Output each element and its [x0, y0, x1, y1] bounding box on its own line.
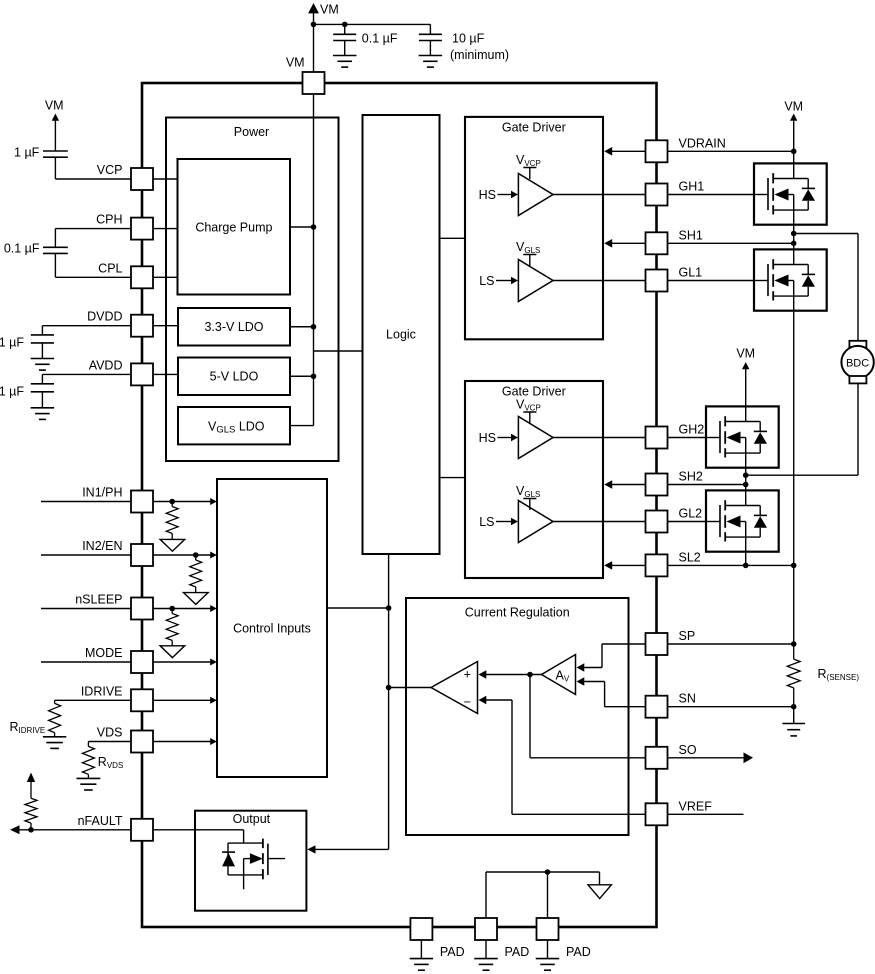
wire GL1 from LS buffer to FET2 gate [553, 280, 754, 282]
svg-text:SO: SO [679, 743, 697, 757]
wire Logic down-bus [388, 554, 390, 849]
wire GH1 from HS buffer to FET1 gate [553, 194, 754, 196]
svg-text:(minimum): (minimum) [450, 48, 509, 62]
wire SH2 (arrow into Gate Driver 2) [604, 480, 612, 489]
transistor Q1 (high-side 1) (external MOSFET with body diode) [754, 163, 827, 225]
wire Control Inputs to logic bus [327, 607, 389, 609]
wire AVDD external [42, 373, 131, 375]
wire Logic to Gate Driver 2 [440, 477, 466, 479]
svg-text:nSLEEP: nSLEEP [75, 593, 122, 607]
op-amp HS gate drive buffer [518, 417, 553, 459]
wire pad bus [486, 871, 600, 873]
nFAULT pull-up arrow [27, 773, 35, 783]
svg-text:AVDD: AVDD [89, 358, 123, 372]
pin SL2 [646, 554, 668, 576]
svg-text:SH1: SH1 [679, 228, 703, 242]
pin SH1 [646, 232, 668, 254]
svg-text:GH1: GH1 [679, 180, 705, 194]
wire SO external with arrow [668, 757, 745, 759]
wire MODE to Control Inputs [153, 661, 211, 663]
Gate Driver 1 box [465, 117, 603, 339]
wire AV output to comparator plus input [485, 674, 542, 676]
pin VM (top) [303, 72, 325, 94]
capacitor 1 uF (AVDD) [31, 383, 54, 385]
Control Inputs box [217, 479, 327, 777]
wire to bulk caps [314, 23, 431, 25]
wire VGLS LDO to VM rail [290, 425, 314, 427]
pin VDS [131, 731, 153, 753]
op-amp LS gate drive buffer [518, 501, 553, 543]
svg-text:VDS: VDS [97, 726, 123, 740]
svg-text:VM: VM [45, 99, 64, 113]
svg-text:GL1: GL1 [679, 266, 703, 280]
internal pulldown symbol [160, 539, 185, 551]
wire CPH loop [55, 228, 131, 230]
pin CPL [131, 266, 153, 288]
wire SH1 (arrow into Gate Driver 1) [604, 239, 612, 248]
pin PAD [537, 918, 559, 940]
svg-text:SP: SP [679, 629, 696, 643]
junction [342, 22, 348, 28]
resistor RIDRIVE [54, 700, 56, 703]
svg-text:VM: VM [320, 3, 339, 17]
pin GH2 [646, 427, 668, 449]
wire FET2 source down to sense node [793, 311, 795, 644]
svg-text:Gate Driver: Gate Driver [502, 121, 566, 135]
transistor Q4 (low-side 2) (external MOSFET with body diode) [706, 490, 779, 552]
svg-text:R(SENSE): R(SENSE) [818, 667, 860, 682]
digital ground stub [599, 872, 601, 885]
wire IN1/PH external [41, 501, 131, 503]
Logic box [363, 115, 440, 554]
wire SP input to AV [602, 643, 657, 645]
svg-text:DVDD: DVDD [87, 310, 122, 324]
svg-text:5-V LDO: 5-V LDO [210, 370, 259, 384]
svg-text:CPL: CPL [98, 261, 122, 275]
transistor nFAULT open-drain FET (Output block) [222, 839, 285, 890]
svg-text:1 µF: 1 µF [0, 385, 24, 399]
motor BDC [841, 341, 873, 384]
pin IN2/EN [131, 544, 153, 566]
wire sense node to ground [793, 707, 795, 724]
wire 3.3-V LDO to VM rail [290, 326, 314, 328]
wire SH1 to BDC motor [794, 233, 858, 235]
wire SN to sense node [668, 706, 794, 708]
svg-text:AV: AV [556, 668, 570, 683]
wire to VCP pin [55, 178, 131, 180]
wire nSLEEP to Control Inputs [153, 608, 211, 610]
wire DVDD external [42, 325, 131, 327]
svg-text:IN1/PH: IN1/PH [82, 486, 122, 500]
svg-text:MODE: MODE [85, 646, 123, 660]
pin DVDD [131, 315, 153, 337]
wire IN2/EN to Control Inputs [153, 554, 211, 556]
svg-text:Charge Pump: Charge Pump [195, 221, 272, 235]
device outer boundary box [142, 83, 657, 927]
svg-text:PAD: PAD [505, 945, 530, 959]
svg-text:GH2: GH2 [679, 423, 705, 437]
junction [169, 499, 175, 505]
pin VCP [131, 168, 153, 190]
ground [77, 777, 101, 779]
svg-text:0.1 µF: 0.1 µF [4, 242, 40, 256]
junction [169, 606, 175, 612]
wire nSLEEP external [41, 608, 131, 610]
wire PAD2 riser [485, 872, 487, 918]
svg-text:VVCP: VVCP [516, 398, 541, 413]
svg-text:VDRAIN: VDRAIN [679, 136, 726, 150]
wire FET4 source to SL2 [745, 552, 747, 566]
wire PAD3 riser [547, 872, 549, 918]
wire VCP to Charge Pump [153, 178, 178, 180]
svg-text:Power: Power [234, 125, 269, 139]
wire nFAULT external with arrow [10, 825, 20, 834]
pin SO [646, 747, 668, 769]
resistor IN2 pulldown [195, 555, 197, 560]
svg-text:VVCP: VVCP [516, 153, 541, 168]
ground [31, 407, 55, 409]
svg-text:nFAULT: nFAULT [78, 814, 123, 828]
wire SH2 node [745, 468, 747, 491]
svg-text:Control Inputs: Control Inputs [233, 621, 311, 635]
capacitor 10 uF (minimum) [429, 24, 431, 34]
wire AV out tap down to SO [529, 675, 531, 758]
wire CPH to Charge Pump [153, 228, 178, 230]
ground [31, 358, 55, 360]
internal pulldown symbol [184, 593, 209, 605]
svg-text:VM: VM [736, 346, 755, 360]
wire VM pin down into Power block [313, 94, 315, 426]
wire BDC to SH2 node [857, 383, 859, 475]
capacitor 0.1 uF (CPH-CPL) [43, 246, 68, 248]
svg-text:VGLS: VGLS [516, 240, 540, 255]
ground [547, 940, 549, 959]
pin AVDD [131, 363, 153, 385]
wire IN2/EN external [41, 554, 131, 556]
svg-text:0.1 µF: 0.1 µF [362, 32, 398, 46]
Charge Pump box [178, 159, 291, 295]
svg-text:IN2/EN: IN2/EN [82, 539, 122, 553]
transistor Q2 (low-side 1) (external MOSFET with body diode) [754, 249, 827, 311]
wire VDS external [88, 741, 131, 743]
wire SN input to AV [604, 682, 606, 707]
ground [782, 723, 805, 725]
pin SP [646, 633, 668, 655]
wire GL2 from LS buffer to FET4 gate [553, 521, 706, 523]
pin PAD [410, 918, 432, 940]
wire VDS to Control Inputs [153, 741, 211, 743]
junction VDRAIN/VM [791, 149, 797, 155]
svg-text:Current Regulation: Current Regulation [465, 606, 570, 620]
wire SP to sense node [668, 643, 794, 645]
svg-text:VM: VM [286, 56, 305, 70]
resistor nFAULT pull-up [30, 781, 32, 798]
resistor IN1 pulldown [171, 502, 173, 507]
pin SH2 [646, 474, 668, 496]
wire 5-V LDO to VM rail [290, 375, 314, 377]
svg-text:LS: LS [479, 515, 494, 529]
svg-text:SH2: SH2 [679, 470, 703, 484]
svg-text:HS: HS [479, 188, 496, 202]
svg-text:Gate Driver: Gate Driver [502, 385, 566, 399]
wire VDRAIN (arrow into Gate Driver 1) [604, 147, 612, 156]
wire VREF to comparator minus input [485, 699, 512, 701]
svg-text:VM: VM [784, 99, 803, 113]
wire Power to Logic [314, 350, 363, 352]
VGLS LDO box [178, 407, 290, 444]
wire Charge Pump to VM rail [290, 226, 314, 228]
pin PAD [475, 918, 497, 940]
op-amp AV sense amplifier [542, 655, 576, 695]
svg-text:+: + [464, 668, 471, 682]
junction [193, 552, 199, 558]
svg-text:IDRIVE: IDRIVE [81, 684, 123, 698]
capacitor 1 uF (DVDD) [31, 334, 54, 336]
wire SH1 node [793, 225, 795, 250]
pin nSLEEP [131, 598, 153, 620]
junction [311, 22, 317, 28]
wire VREF external [668, 813, 744, 815]
wire DVDD to 3.3-V LDO [153, 325, 178, 327]
ground [333, 55, 357, 57]
svg-text:Logic: Logic [386, 328, 416, 342]
op-amp LS gate drive buffer [518, 260, 553, 302]
pin nFAULT [131, 819, 153, 841]
wire CPL to Charge Pump [153, 276, 178, 278]
wire bus to Output block (arrow) [315, 848, 389, 850]
wire AVDD to 5-V LDO [153, 373, 178, 375]
svg-text:RVDS: RVDS [98, 755, 123, 770]
resistor nSLEEP pulldown [171, 609, 173, 614]
resistor RSENSE [787, 659, 800, 688]
Current Regulation box [406, 598, 629, 835]
pin IN1/PH [131, 491, 153, 513]
wire IN1/PH to Control Inputs [153, 501, 211, 503]
svg-text:1 µF: 1 µF [14, 146, 40, 160]
wire VM arrow to pin [313, 13, 315, 73]
op-amp current comparator [431, 662, 478, 714]
5-V LDO box [178, 358, 290, 396]
ground [419, 55, 443, 57]
Gate Driver 2 box [465, 381, 603, 578]
pin GH1 [646, 184, 668, 206]
pin IDRIVE [131, 689, 153, 711]
resistor RVDS [87, 742, 89, 747]
ground [43, 736, 66, 738]
svg-text:1 µF: 1 µF [0, 336, 24, 350]
Output block box [195, 811, 306, 911]
transistor Q3 (high-side 2) (external MOSFET with body diode) [706, 406, 779, 468]
wire CPL loop [54, 253, 56, 277]
svg-text:PAD: PAD [440, 945, 465, 959]
svg-text:LS: LS [479, 274, 494, 288]
Power block box [166, 118, 339, 462]
pin CPH [131, 218, 153, 240]
svg-text:SL2: SL2 [679, 550, 701, 564]
wire IDRIVE external [55, 699, 131, 701]
pin GL2 [646, 511, 668, 533]
svg-text:BDC: BDC [846, 357, 869, 369]
svg-text:VCP: VCP [97, 163, 123, 177]
svg-text:VGLS: VGLS [516, 484, 540, 499]
3.3-V LDO box [178, 308, 290, 346]
pin GL1 [646, 270, 668, 292]
svg-text:10 µF: 10 µF [452, 32, 485, 46]
svg-text:Output: Output [233, 812, 271, 826]
ground [485, 940, 487, 959]
wire GH2 from HS buffer to FET3 gate [553, 437, 706, 439]
svg-text:PAD: PAD [566, 945, 591, 959]
wire MODE external [41, 661, 131, 663]
node VM (top supply arrow) [308, 3, 319, 13]
svg-text:3.3-V LDO: 3.3-V LDO [204, 320, 263, 334]
svg-text:GL2: GL2 [679, 507, 703, 521]
wire IDRIVE to Control Inputs [153, 699, 211, 701]
capacitor 0.1 uF (VM bypass) [344, 24, 346, 34]
svg-text:VREF: VREF [679, 799, 713, 813]
svg-text:SN: SN [679, 692, 696, 706]
pin MODE [131, 651, 153, 673]
svg-text:CPH: CPH [96, 213, 122, 227]
wire comparator output to logic bus [389, 687, 431, 689]
capacitor 1 uF (VCP) [54, 120, 56, 151]
internal pulldown symbol [160, 646, 185, 658]
ground [420, 940, 422, 959]
pin SN [646, 696, 668, 718]
wire nFAULT to Output block [153, 829, 244, 831]
svg-text:RIDRIVE: RIDRIVE [10, 720, 46, 735]
op-amp HS gate drive buffer [518, 174, 553, 216]
pin VREF [646, 803, 668, 825]
junction [527, 672, 533, 678]
wire Logic to Gate Driver 1 [440, 237, 466, 239]
svg-text:−: − [464, 695, 471, 709]
pin VDRAIN [646, 140, 668, 162]
svg-text:VGLS LDO: VGLS LDO [208, 420, 265, 436]
svg-text:HS: HS [479, 431, 496, 445]
junction [28, 827, 34, 833]
wire SL2 (arrow into Gate Driver 2) [604, 561, 612, 570]
